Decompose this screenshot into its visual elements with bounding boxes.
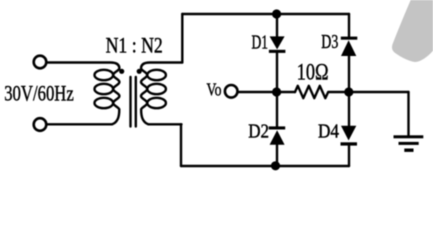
wire: bottom rail — [181, 165, 349, 167]
diode D2 cathode bar — [269, 126, 286, 129]
wire: D4 to bottom rail — [348, 145, 350, 166]
wire: D1 column top — [276, 14, 278, 37]
junction dot middle left — [272, 87, 281, 96]
transformer secondary winding spine — [141, 63, 182, 125]
diode D1 triangle (pointing down) — [270, 36, 285, 49]
wire: resistor to ground corner — [349, 91, 409, 93]
junction dot top rail — [272, 9, 281, 18]
diode D4 cathode bar — [341, 142, 358, 145]
terminal circle bottom left — [34, 118, 47, 131]
diode D1 cathode bar — [269, 50, 286, 53]
wire: secondary bottom lead vertical — [180, 124, 182, 166]
transformer core line right — [135, 77, 137, 127]
diode D3 triangle (pointing up) — [341, 40, 356, 56]
wire: middle to D4 — [348, 92, 350, 126]
wire: D3 column top — [348, 14, 350, 37]
svg-text:N1 : N2: N1 : N2 — [106, 32, 163, 57]
terminal circle top left — [34, 56, 47, 69]
transformer secondary winding loops — [147, 70, 166, 80]
transformer primary winding loops — [95, 70, 114, 80]
transformer primary winding spine — [47, 63, 120, 125]
ground bar 3 — [404, 149, 413, 152]
svg-text:D3: D3 — [321, 32, 338, 53]
transformer phase dot right — [137, 69, 142, 74]
wire: D1 to middle — [276, 53, 278, 92]
svg-text:30V/60Hz: 30V/60Hz — [4, 81, 74, 106]
svg-text:D2: D2 — [248, 122, 269, 143]
diode D2 triangle (pointing up) — [270, 130, 285, 145]
svg-text:D4: D4 — [318, 122, 339, 143]
diode D4 triangle (pointing down) — [341, 126, 356, 141]
wire: Vo circle to resistor — [238, 91, 295, 93]
page curl decoration top right — [392, 0, 433, 62]
wire: top rail — [182, 13, 349, 15]
resistor 10 ohm zigzag — [295, 86, 349, 98]
ground bar 1 — [394, 135, 424, 138]
junction dot bottom rail — [271, 161, 280, 170]
diode D3 cathode bar — [341, 37, 358, 40]
svg-text:10Ω: 10Ω — [297, 60, 329, 85]
transformer core line left — [129, 77, 131, 127]
ground bar 2 — [399, 142, 419, 145]
junction dot middle right — [344, 87, 353, 96]
wire: secondary top lead vertical — [181, 14, 183, 63]
transformer phase dot left — [119, 69, 124, 74]
wire: D2 to bottom rail — [276, 144, 278, 166]
wire: middle to D2 — [276, 92, 278, 127]
wire: ground drop — [407, 92, 409, 136]
svg-text:Vo: Vo — [207, 79, 222, 99]
wire: D3 to middle — [348, 56, 350, 92]
terminal circle Vo — [225, 85, 238, 98]
svg-text:D1: D1 — [252, 32, 269, 53]
